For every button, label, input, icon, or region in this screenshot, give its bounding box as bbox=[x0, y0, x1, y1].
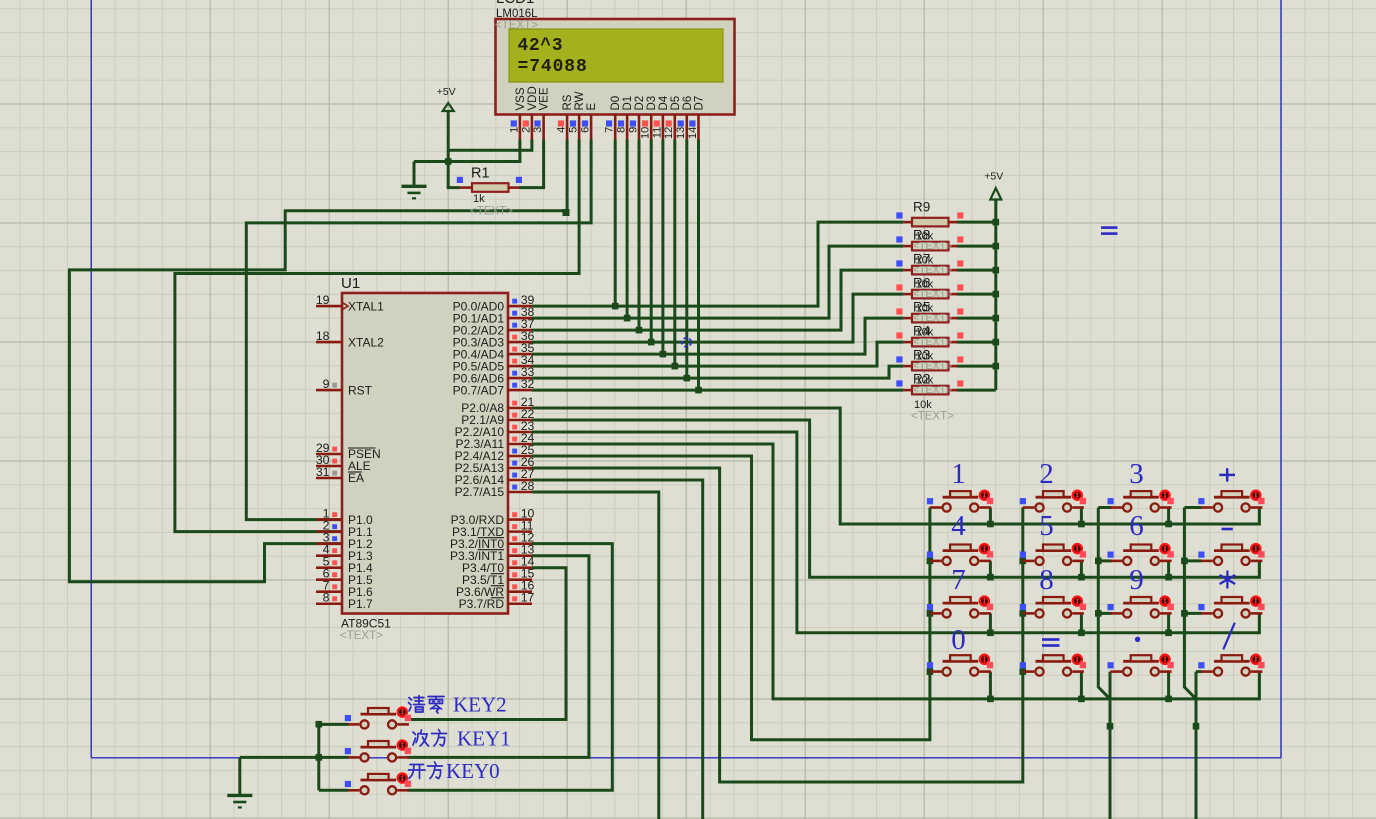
svg-text:KEY2: KEY2 bbox=[453, 693, 507, 717]
svg-text:D2: D2 bbox=[634, 96, 646, 111]
svg-text:9: 9 bbox=[323, 377, 330, 391]
svg-text:XTAL1: XTAL1 bbox=[348, 299, 384, 313]
svg-text:5: 5 bbox=[1039, 510, 1054, 542]
svg-text:8: 8 bbox=[1039, 564, 1054, 596]
svg-text:9: 9 bbox=[627, 127, 639, 133]
svg-text:2: 2 bbox=[1039, 458, 1054, 490]
svg-text:5: 5 bbox=[568, 127, 580, 133]
svg-text:8: 8 bbox=[616, 127, 628, 133]
svg-text:1: 1 bbox=[508, 127, 520, 133]
svg-text:P2.7/A15: P2.7/A15 bbox=[455, 485, 505, 499]
svg-text:10k: 10k bbox=[914, 399, 932, 411]
svg-text:42^3: 42^3 bbox=[518, 36, 564, 56]
svg-text:R5: R5 bbox=[913, 300, 930, 315]
svg-text:KEY1: KEY1 bbox=[457, 727, 511, 751]
svg-text:VDD: VDD bbox=[527, 86, 539, 110]
svg-text:LCD1: LCD1 bbox=[496, 0, 534, 7]
svg-text:E: E bbox=[586, 103, 598, 111]
svg-text:+5V: +5V bbox=[984, 171, 1003, 183]
svg-text:7: 7 bbox=[604, 127, 616, 133]
svg-text:VEE: VEE bbox=[539, 87, 551, 110]
svg-text:U1: U1 bbox=[341, 275, 360, 292]
svg-text:R3: R3 bbox=[913, 348, 930, 363]
svg-text:D6: D6 bbox=[682, 96, 694, 111]
svg-text:=74088: =74088 bbox=[518, 57, 588, 77]
svg-text:10: 10 bbox=[640, 127, 652, 139]
svg-text:RST: RST bbox=[348, 383, 373, 397]
svg-text:1: 1 bbox=[951, 458, 966, 490]
svg-text:P1.7: P1.7 bbox=[348, 597, 373, 611]
svg-text:28: 28 bbox=[521, 479, 535, 493]
svg-text:13: 13 bbox=[675, 127, 687, 139]
svg-text:18: 18 bbox=[316, 329, 330, 343]
svg-text:D1: D1 bbox=[622, 96, 634, 111]
svg-text:4: 4 bbox=[951, 510, 966, 542]
svg-text:D3: D3 bbox=[646, 96, 658, 111]
svg-text:1k: 1k bbox=[473, 193, 485, 205]
svg-text:D4: D4 bbox=[658, 95, 670, 110]
svg-text:XTAL2: XTAL2 bbox=[348, 335, 384, 349]
svg-text:14: 14 bbox=[687, 127, 699, 139]
svg-text:32: 32 bbox=[521, 377, 535, 391]
svg-text:8: 8 bbox=[323, 591, 330, 605]
svg-text:6: 6 bbox=[1129, 510, 1144, 542]
svg-text:2: 2 bbox=[520, 127, 532, 133]
svg-text:4: 4 bbox=[556, 127, 568, 133]
svg-text:R9: R9 bbox=[913, 200, 930, 215]
svg-text:R8: R8 bbox=[913, 228, 930, 243]
svg-text:R4: R4 bbox=[913, 324, 931, 339]
svg-text:11: 11 bbox=[651, 127, 663, 138]
svg-text:19: 19 bbox=[316, 293, 330, 307]
svg-text:AT89C51: AT89C51 bbox=[341, 617, 391, 631]
svg-text:D5: D5 bbox=[670, 96, 682, 111]
svg-text:<TEXT>: <TEXT> bbox=[911, 411, 954, 423]
svg-text:31: 31 bbox=[316, 465, 330, 479]
svg-text:RW: RW bbox=[574, 91, 586, 110]
svg-text:RS: RS bbox=[562, 94, 574, 110]
svg-text:P3.7/RD: P3.7/RD bbox=[459, 597, 505, 611]
svg-text:+5V: +5V bbox=[437, 86, 456, 98]
svg-text:<TEXT>: <TEXT> bbox=[340, 630, 383, 642]
svg-text:EA: EA bbox=[348, 471, 364, 485]
svg-text:7: 7 bbox=[951, 564, 966, 596]
svg-text:3: 3 bbox=[1129, 458, 1144, 490]
svg-text:R7: R7 bbox=[913, 252, 930, 267]
svg-text:R1: R1 bbox=[471, 166, 490, 182]
svg-text:VSS: VSS bbox=[515, 87, 527, 110]
svg-text:P0.7/AD7: P0.7/AD7 bbox=[453, 383, 505, 397]
svg-text:0: 0 bbox=[951, 624, 966, 656]
svg-text:<TEXT>: <TEXT> bbox=[470, 206, 513, 218]
svg-text:R6: R6 bbox=[913, 276, 930, 291]
svg-text:12: 12 bbox=[663, 127, 675, 139]
svg-text:LM016L: LM016L bbox=[496, 8, 538, 20]
svg-text:KEY0: KEY0 bbox=[446, 759, 500, 783]
svg-text:D0: D0 bbox=[610, 96, 622, 111]
svg-text:3: 3 bbox=[532, 127, 544, 133]
svg-text:17: 17 bbox=[521, 591, 535, 605]
svg-text:9: 9 bbox=[1129, 564, 1144, 596]
svg-text:6: 6 bbox=[580, 127, 592, 133]
svg-text:D7: D7 bbox=[694, 96, 706, 111]
svg-text:R2: R2 bbox=[913, 372, 930, 387]
